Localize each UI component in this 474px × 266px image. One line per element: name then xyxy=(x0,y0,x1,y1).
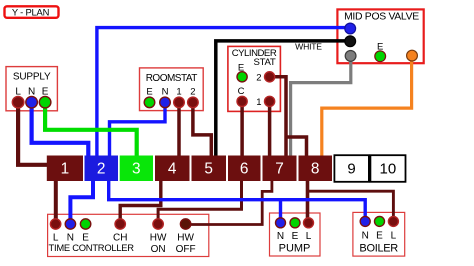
wire supply E to terminal 3 xyxy=(45,104,137,156)
box PUMP xyxy=(270,213,321,256)
svg-text:10: 10 xyxy=(380,161,397,178)
terminal boiler E xyxy=(375,216,385,226)
svg-text:1: 1 xyxy=(256,97,261,108)
svg-text:2: 2 xyxy=(190,87,195,98)
terminal block cell 7 xyxy=(263,156,297,182)
terminal cylstat C xyxy=(237,96,247,106)
wire terminal 2 to timer N xyxy=(70,180,93,220)
svg-text:ROOMSTAT: ROOMSTAT xyxy=(146,73,198,84)
terminal timer HW OFF xyxy=(180,219,190,229)
terminal pump E xyxy=(290,218,300,228)
terminal pump L xyxy=(304,218,314,228)
terminal boiler N xyxy=(360,216,370,226)
box ROOMSTAT xyxy=(140,68,204,111)
terminal cylstat 1 xyxy=(265,96,275,106)
label box Y-PLAN xyxy=(5,6,59,17)
wire cylstat 1 to terminal 7 xyxy=(268,103,272,156)
svg-text:7: 7 xyxy=(275,161,284,178)
wire timer CH to terminal 4 xyxy=(120,180,161,220)
wire cylstat 2 to terminal 7 xyxy=(271,77,286,156)
svg-text:E: E xyxy=(146,87,152,98)
svg-text:ON: ON xyxy=(151,244,166,255)
svg-text:HW: HW xyxy=(177,233,194,244)
svg-text:3: 3 xyxy=(132,161,141,178)
terminal block cell 9 xyxy=(334,155,369,182)
terminal block cell 5 xyxy=(192,156,227,182)
wire roomstat 1 to terminal 4 xyxy=(177,104,181,156)
wire terminal 8 to pump L xyxy=(306,180,310,218)
terminal timer N xyxy=(65,219,75,229)
svg-text:OFF: OFF xyxy=(176,244,196,255)
svg-text:MID POS VALVE: MID POS VALVE xyxy=(344,12,419,23)
wire valve blue to terminal 2 xyxy=(97,28,350,156)
wire terminal 2 to pump N and boiler N xyxy=(109,180,366,218)
box BOILER xyxy=(353,212,405,256)
wire roomstat 2 to terminal 5 xyxy=(193,104,211,156)
terminal roomstat N xyxy=(160,97,171,108)
svg-text:L: L xyxy=(391,231,397,242)
terminal roomstat E xyxy=(144,97,155,108)
svg-text:5: 5 xyxy=(204,161,213,178)
svg-text:9: 9 xyxy=(347,161,355,178)
wire timer HW OFF to terminal 7 xyxy=(187,180,272,225)
box MID POS VALVE xyxy=(337,9,423,63)
wire valve gray to terminal 7 xyxy=(291,57,351,156)
terminal roomstat 2 xyxy=(188,97,199,108)
terminal block cell 2 xyxy=(85,156,119,182)
terminal supply E xyxy=(39,96,51,108)
terminal timer CH xyxy=(115,219,125,229)
terminal valve gray xyxy=(345,51,356,62)
svg-text:N: N xyxy=(277,231,284,242)
terminal block cell 6 xyxy=(228,156,261,182)
svg-text:4: 4 xyxy=(168,161,177,178)
terminal supply L xyxy=(12,96,24,108)
wire valve orange to terminal 8 xyxy=(322,57,412,156)
svg-text:2: 2 xyxy=(256,72,261,83)
terminal cylstat 2 xyxy=(265,72,275,82)
terminal supply N xyxy=(26,96,38,108)
terminal block cell 3 xyxy=(120,156,153,182)
svg-text:E: E xyxy=(292,231,299,242)
svg-text:C: C xyxy=(238,86,245,97)
svg-text:TIME CONTROLLER: TIME CONTROLLER xyxy=(49,242,135,253)
svg-text:2: 2 xyxy=(97,161,106,178)
wire timer HW ON to terminal 6 xyxy=(158,180,241,220)
terminal timer L xyxy=(50,219,60,229)
svg-text:N: N xyxy=(162,87,169,98)
terminal block cell 8 xyxy=(299,156,333,182)
terminal cylstat E xyxy=(237,72,247,82)
wire roomstat N to terminal 2 xyxy=(110,104,166,156)
svg-text:WHITE: WHITE xyxy=(295,41,322,51)
box CYLINDER STAT xyxy=(228,46,281,111)
wire supply N to terminal 2 xyxy=(32,104,89,156)
wire cylstat C to terminal 6 xyxy=(240,103,244,156)
svg-text:BOILER: BOILER xyxy=(359,243,398,255)
svg-text:6: 6 xyxy=(240,161,249,178)
svg-text:Y - PLAN: Y - PLAN xyxy=(12,7,49,18)
wire branch boiler L xyxy=(308,191,394,217)
svg-text:HW: HW xyxy=(150,233,167,244)
terminal timer E xyxy=(80,219,90,229)
terminal valve orange xyxy=(407,50,418,61)
svg-text:1: 1 xyxy=(61,161,70,178)
terminal valve black xyxy=(345,36,356,47)
wire supply L to terminal 1 xyxy=(18,104,47,165)
terminal block cell 4 xyxy=(155,156,190,182)
svg-text:STAT: STAT xyxy=(254,57,276,68)
svg-text:1: 1 xyxy=(176,87,181,98)
box SUPPLY xyxy=(6,67,57,111)
svg-text:PUMP: PUMP xyxy=(279,243,311,255)
svg-text:SUPPLY: SUPPLY xyxy=(13,72,51,83)
terminal block cell 10 xyxy=(370,155,405,182)
box TIME CONTROLLER xyxy=(48,214,209,256)
terminal pump N xyxy=(276,218,286,228)
terminal valve blue xyxy=(345,23,356,34)
wire cylstat 2 branch to terminal 8 xyxy=(285,137,307,156)
wire branch pump N xyxy=(279,200,282,218)
svg-text:N: N xyxy=(362,231,369,242)
terminal roomstat 1 xyxy=(174,97,185,108)
terminal timer HW ON xyxy=(153,219,163,229)
svg-text:E: E xyxy=(376,231,383,242)
svg-text:8: 8 xyxy=(311,161,320,178)
terminal valve E xyxy=(375,51,386,62)
terminal boiler L xyxy=(388,216,398,226)
wire terminal 1 to timer L xyxy=(54,180,58,221)
svg-text:L: L xyxy=(306,231,312,242)
wire valve black WHITE to terminal 5 xyxy=(216,41,350,156)
terminal block cell 1 xyxy=(47,156,83,182)
